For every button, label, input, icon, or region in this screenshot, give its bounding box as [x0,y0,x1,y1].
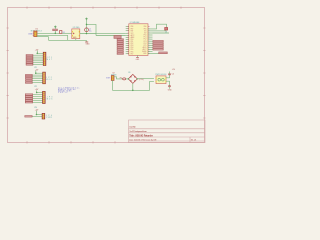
frame border [8,8,205,143]
svg-text:Title: USB I/O Retarder: Title: USB I/O Retarder [129,134,153,137]
svg-text:PC0: PC0 [144,35,147,37]
svg-text:JP2: JP2 [34,86,37,88]
svg-text:PD5: PD5 [131,49,134,51]
junction node +5V/out [86,33,88,35]
connector JP3 [43,91,53,103]
svg-text:C5: C5 [172,73,174,75]
supply +5V symbol (green cross) [54,26,57,29]
net labels left of IC3 [117,39,124,55]
svg-text:Date: 10/01/06 17:32 Drawn by:: Date: 10/01/06 17:32 Drawn by: DM [129,138,157,141]
connector X1 USB [28,28,42,36]
svg-text:PC2: PC2 [144,39,147,41]
wire IC1 output net [80,33,96,35]
op-amp IC3 microcontroller [129,21,148,55]
wire AVCC hook [87,24,97,35]
svg-text:PB0: PB0 [144,26,147,28]
header JP3 cluster [35,89,39,93]
svg-text:PC3: PC3 [144,41,147,43]
svg-text:M07: M07 [47,59,53,61]
svg-text:(+5V): (+5V) [139,79,144,81]
note text block (blue) [58,87,80,94]
supply +5V symbol above C1 [85,18,88,21]
svg-text:PD7: PD7 [131,53,134,55]
op regulator IC1 [72,27,80,39]
wire PWR1 out top [166,75,170,78]
frame tick marks bottom [27,141,115,143]
connector X2 power in [106,72,117,80]
svg-text:F1: F1 [120,78,122,80]
wire VBUS net [37,32,60,34]
junction node rail [132,90,134,92]
net label GND (JP4) [25,116,33,118]
svg-text:PD3: PD3 [131,45,134,47]
header JP4 cluster supply [34,107,39,115]
JP4 wires [32,115,42,117]
svg-text:XT2: XT2 [144,33,147,35]
JP1 wires [33,53,44,64]
frame tick marks left [7,28,9,118]
fuse F1 [120,78,126,80]
converter PWR1 [155,74,167,84]
svg-text:PB7: PB7 [131,28,134,30]
connector JP1 [43,52,52,65]
net label VBUS [53,29,58,33]
ground rail wire [75,39,77,41]
junction node hook [86,24,88,26]
svg-text:PD0: PD0 [131,39,134,41]
IC3 pin names left column [131,26,135,55]
capacitor C1 (polarized) [85,28,92,32]
svg-text:PB6: PB6 [131,26,134,28]
svg-text:M06: M06 [46,79,52,81]
wire B1 plus net [137,78,154,80]
JP2 net labels [25,74,32,83]
wire +5V vertical [86,20,88,33]
IC3 bottom stub and gnd [136,55,140,61]
svg-text:M06: M06 [47,98,53,100]
wire VCC to IC3 [96,32,126,34]
svg-text:RST: RST [131,30,134,32]
title block [129,120,206,143]
wire crystal bottom [153,30,167,32]
svg-text:PD2: PD2 [131,43,134,45]
svg-text:PC4: PC4 [144,43,147,45]
JP3 wires [33,93,43,103]
IC3 right pin numbers [148,26,149,54]
svg-text:PD4: PD4 [131,47,134,49]
title block text [129,127,196,142]
bridge rectifier B1 [128,72,138,83]
svg-text:B1: B1 [128,72,130,74]
wire PC net [153,32,170,34]
IC3 right pin stubs [148,31,153,54]
frame tick marks right [203,28,205,118]
svg-text:VCC: VCC [131,33,134,35]
svg-text:The R2 Development House: The R2 Development House [129,130,147,133]
svg-text:XT1: XT1 [144,31,147,33]
svg-text:Dave Mah: Dave Mah [129,127,136,129]
svg-text:PC1: PC1 [144,37,147,39]
svg-text:PWR: PWR [46,117,52,119]
IC3 left pin numbers [128,26,129,54]
svg-text:PC5: PC5 [144,45,147,47]
JP3 net labels [25,94,33,103]
diode D1 [60,31,66,34]
svg-text:GND: GND [86,44,91,46]
wire F1 to bridge B1 [126,78,129,80]
frame tick marks top [27,7,181,9]
crystal Q1 [165,28,168,34]
wire B1 bottom tap [132,83,134,90]
IC3 pin names right column [142,26,146,55]
wire PWR1 out bottom [166,81,170,86]
header JP2 cluster [35,69,39,74]
JP1 net labels [26,54,33,65]
net label VCC/AVCC [114,35,121,38]
net labels right of IC3 [153,40,168,53]
svg-text:USB: USB [28,33,33,35]
wire AVCC to IC3 [96,35,126,37]
svg-text:GND: GND [143,53,146,55]
wire crystal top [148,24,167,29]
IC3 left pin stubs [126,27,129,54]
junction node VBUS [55,33,57,35]
svg-text:PD6: PD6 [131,51,134,53]
capacitor C6 [168,86,173,92]
connector JP2 [43,72,52,84]
svg-text:PB1: PB1 [144,28,147,30]
svg-text:PWR1 0505S: PWR1 0505S [155,74,167,76]
wire USB data net [37,34,68,36]
header JP1 cluster [35,49,39,54]
svg-text:PWR 5V: PWR 5V [58,92,68,94]
capacitor C5 [168,69,176,76]
svg-text:PD1: PD1 [131,41,134,43]
svg-text:X2: X2 [112,72,114,74]
JP2 wires [32,73,43,83]
ground symbol GND1 [85,41,90,46]
wire B1 minus rail [113,80,154,90]
svg-text:10u: 10u [89,30,92,32]
svg-text:Sh. 1/1: Sh. 1/1 [191,139,197,141]
connector JP4 [42,113,52,119]
wire X2 to F1 [114,77,123,79]
wire D1 to IC1 [62,32,72,34]
